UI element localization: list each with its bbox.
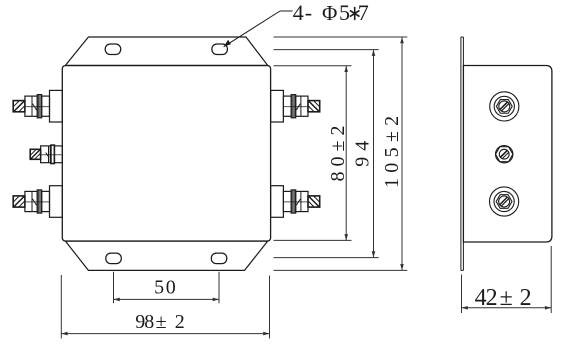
- svg-text:80±2: 80±2: [327, 121, 349, 182]
- dimension 94: [274, 50, 379, 258]
- mounting hole top-left: [105, 44, 121, 55]
- top flange: [66, 37, 268, 65]
- mounting hole top-right: [212, 44, 228, 55]
- screw top: [490, 92, 519, 121]
- svg-text:105±2: 105±2: [381, 111, 403, 188]
- asterisk star in label: [350, 7, 360, 20]
- leader 4-phi5*7: [224, 11, 293, 47]
- dimension 50: [114, 272, 220, 303]
- dimension 80±2: [274, 66, 352, 241]
- front body: [62, 66, 270, 241]
- bottom flange: [66, 241, 268, 270]
- dimension 98±2: [61, 275, 269, 339]
- svg-text:98±2: 98±2: [135, 311, 185, 333]
- terminal left middle: [30, 145, 62, 163]
- terminal left top: [13, 90, 62, 122]
- terminal left bottom: [13, 186, 62, 218]
- screw bottom: [490, 187, 519, 216]
- side body: [463, 66, 552, 243]
- svg-text:50: 50: [154, 277, 177, 299]
- side flange plate: [461, 37, 464, 270]
- dimension 42±2: [462, 246, 552, 313]
- mounting hole bottom-right: [211, 253, 227, 264]
- svg-text:42±2: 42±2: [475, 285, 532, 311]
- terminal right bottom: [271, 186, 320, 218]
- mounting hole bottom-left: [106, 253, 122, 264]
- terminal right top: [271, 90, 320, 122]
- dimension 105±2: [274, 37, 408, 270]
- screw middle: [496, 146, 513, 163]
- svg-text:94: 94: [351, 135, 373, 167]
